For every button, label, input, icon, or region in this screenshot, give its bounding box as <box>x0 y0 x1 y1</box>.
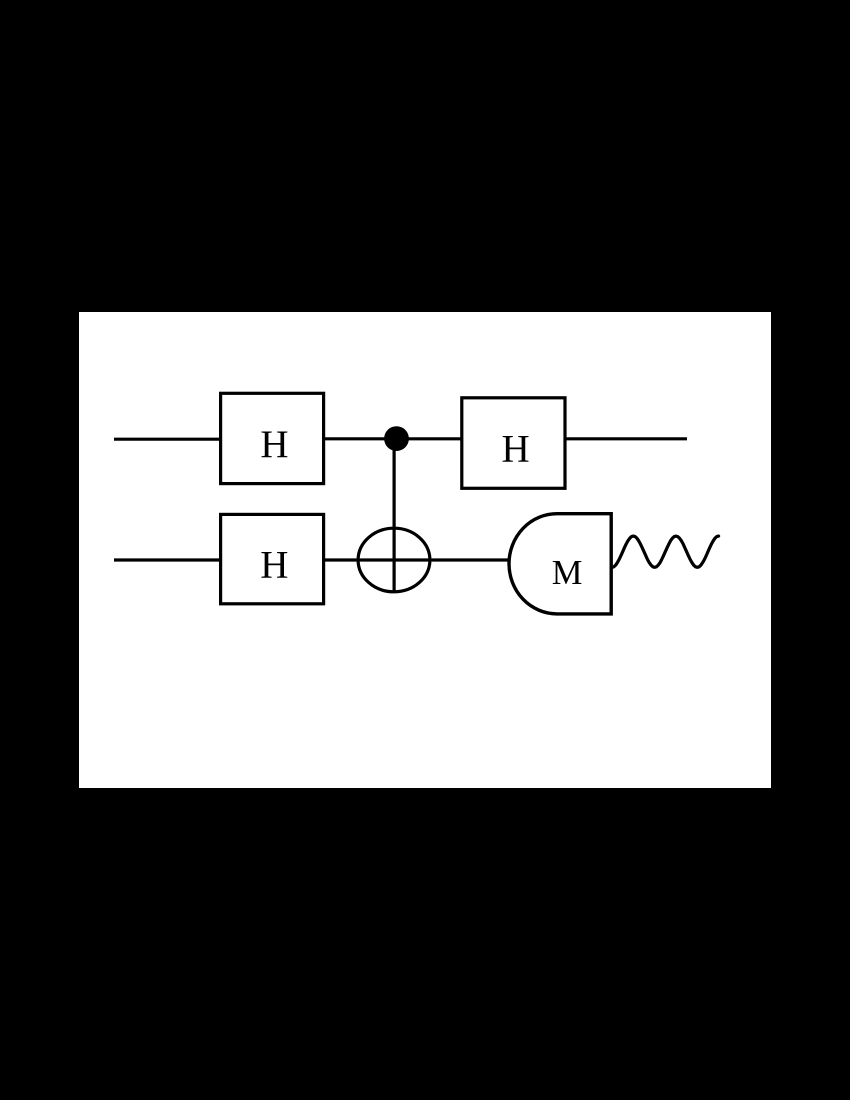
gate H1 box <box>221 393 324 483</box>
CNOT vertical wire <box>393 439 396 592</box>
gate H3 box <box>221 514 324 603</box>
svg-text:M: M <box>552 554 583 592</box>
white canvas <box>79 312 771 788</box>
CNOT control dot <box>384 426 409 451</box>
wire q0 middle segment <box>322 437 462 440</box>
svg-text:H: H <box>260 543 288 586</box>
svg-text:H: H <box>502 428 530 471</box>
wire q0 right segment <box>565 437 687 440</box>
wire q1 middle segment <box>324 558 512 561</box>
classical output squiggle wire <box>612 536 719 567</box>
measurement gate M body <box>509 514 611 614</box>
wire q0 left segment <box>114 438 221 441</box>
svg-text:H: H <box>260 423 288 466</box>
wire q1 left segment <box>114 558 221 561</box>
gate H2 box <box>462 398 565 489</box>
CNOT target circle <box>358 528 430 592</box>
